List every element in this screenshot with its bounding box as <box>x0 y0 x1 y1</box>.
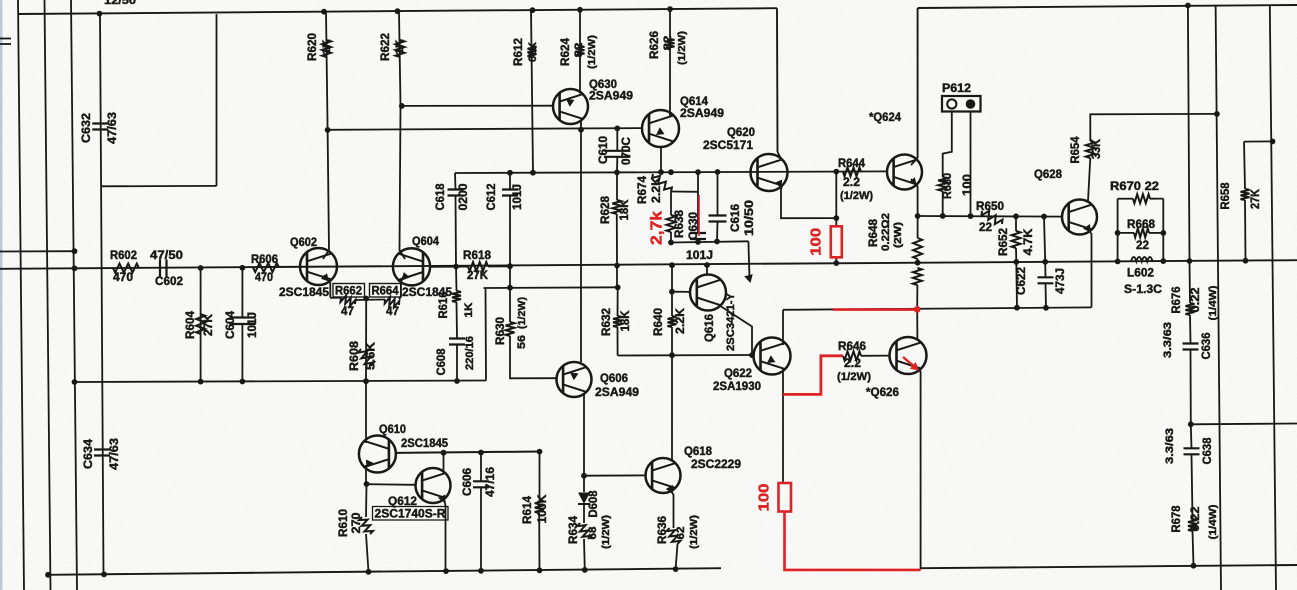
wire feedback box bottom <box>101 185 217 187</box>
wire R636 lower <box>676 544 678 569</box>
junction tail node <box>363 296 369 302</box>
wire Q604 emitter <box>401 275 404 296</box>
wire bottom rail (left) <box>48 568 721 575</box>
junction top rail right / output branch <box>1185 3 1191 9</box>
resistor R614 zigzag <box>535 500 544 513</box>
wire R676 upper <box>1189 261 1192 303</box>
red annotation line near R674/C630 <box>698 195 700 236</box>
wire C612 to jog line <box>509 266 511 288</box>
junction bottom rail <box>366 569 372 575</box>
capacitor C608 <box>449 339 465 345</box>
wire Q602 collector <box>328 130 329 250</box>
wire C608 lower <box>456 345 458 382</box>
capacitor C604 <box>229 318 255 325</box>
wire Q622 collector riser <box>782 310 784 345</box>
junction Q624 emitter / y216 line <box>915 213 921 219</box>
junction Q618 base / Q606 collector <box>581 473 587 479</box>
wire C622 branch upper <box>1044 217 1046 278</box>
wire C618 upper <box>454 173 457 189</box>
wire R626 branch / Q614 collector <box>669 9 671 116</box>
arrow Q602 emitter <box>321 273 329 281</box>
capacitor C610 <box>604 151 630 157</box>
capacitor C602 <box>160 260 167 277</box>
wire R652 lower <box>1016 248 1017 308</box>
junction y452 Q612 collector <box>441 450 447 456</box>
wire R610 upper <box>365 484 368 517</box>
junction Q614 emitter / y173 line <box>658 169 664 175</box>
red jumper wire at Q622/Q626 <box>783 356 843 395</box>
capacitor C638 <box>1184 448 1200 454</box>
junction bottom rail <box>101 571 107 577</box>
junction y424 <box>1188 421 1194 427</box>
wire R668 left <box>1118 232 1134 234</box>
capacitor C612 <box>502 190 518 196</box>
junction y173 line <box>715 169 721 175</box>
capacitor C632 <box>92 124 108 130</box>
wire R640 lower <box>671 327 673 355</box>
arrow Q622 emitter (PNP) <box>767 355 776 363</box>
wire C630 lower <box>697 239 699 242</box>
wire R678 lower <box>1193 531 1194 566</box>
wire C616 lower <box>716 222 719 242</box>
wire Q612 base <box>367 483 416 486</box>
junction negative rail y=381 <box>454 378 460 384</box>
diode D608 <box>578 493 590 505</box>
wire Q628 collector riser <box>1088 158 1090 201</box>
wire R604 branch <box>200 268 202 382</box>
wire R648 mid <box>917 259 919 263</box>
wire Q626 collector <box>916 309 918 339</box>
wire output vertical upper <box>1188 6 1190 262</box>
junction R622/Q630 base <box>399 103 405 109</box>
arrow Q612 emitter <box>438 495 446 504</box>
junction y242 C630 <box>695 239 701 245</box>
wire R680 lower <box>942 191 944 216</box>
wire Q616 emitter to tail <box>718 305 752 356</box>
junction main rail 10 <box>1013 259 1019 265</box>
transistor Q622 2SA1930 <box>754 338 791 375</box>
label R662 boxed <box>333 284 365 298</box>
wire Q618 base line <box>584 474 646 476</box>
wire R634 lower <box>583 539 586 570</box>
junction y452 C606 <box>478 450 484 456</box>
wire R616 upper <box>455 267 458 292</box>
wire y424 line to right <box>1191 423 1297 426</box>
red wire from lower red resistor to bottom <box>785 512 921 570</box>
wire Q612 emitter down <box>444 498 446 571</box>
capacitor C636 <box>1183 344 1199 350</box>
wire Q628 emitter down <box>1087 228 1092 307</box>
junction y242 C616 <box>714 239 720 245</box>
wire Q616 base <box>672 291 690 293</box>
wire y242 horizontal <box>671 241 748 242</box>
wire riser x=486 <box>485 288 488 381</box>
transistor Q624 2SC5171 (driver) <box>887 155 922 190</box>
junction main rail 8 <box>833 260 839 266</box>
resistor R638 zigzag <box>667 215 676 232</box>
wire C622 lower <box>1045 284 1048 308</box>
junction Q610 emitter / Q612 base <box>364 481 370 487</box>
wire Q604 collector <box>400 106 406 259</box>
junction Q616 base / R640 <box>669 289 675 295</box>
resistor R668 zigzag <box>1134 228 1149 237</box>
wire C638 lower <box>1192 455 1193 519</box>
junction y355 R640 <box>669 352 675 358</box>
wire R658 upper <box>1244 142 1245 189</box>
label R664 boxed <box>370 284 402 298</box>
resistor R654 zigzag <box>1086 141 1095 158</box>
wire R630 lower to Q606 base <box>510 336 557 378</box>
capacitor C616 <box>709 216 727 222</box>
wire R632 lower <box>617 327 619 356</box>
resistor R648 zigzag upper <box>913 238 922 259</box>
wire feedback box right edge <box>216 14 218 186</box>
junction main rail 7 <box>704 262 710 268</box>
wire Q612 collector <box>443 453 445 473</box>
wire R620 branch / Q602 collector riser <box>326 12 328 130</box>
resistor R644 zigzag <box>843 167 861 176</box>
wire tail right <box>399 296 401 299</box>
wire R648 upper <box>917 216 919 238</box>
wire C606 upper <box>480 453 482 482</box>
junction bottom rail <box>443 568 449 574</box>
wire P612 pin1 to R680 <box>943 112 952 178</box>
wire R648 lower <box>916 285 918 309</box>
transistor Q614 2SA949 <box>642 110 679 147</box>
red junction dot y309 <box>914 306 921 313</box>
transistor Q616 2SC3421-Y <box>690 275 726 311</box>
resistor R636 zigzag <box>667 528 681 544</box>
resistor R620 zigzag <box>322 40 331 57</box>
wire R652 upper <box>1015 216 1017 231</box>
transistor Q620 2SC5171 <box>751 154 788 191</box>
wire y216 line to Q628 <box>918 215 1062 218</box>
wire R616-C608 middle <box>456 302 459 338</box>
junction bottom rail <box>582 567 588 573</box>
junction stub rail end <box>72 248 78 254</box>
arrow Q606 emitter (PNP) <box>570 373 579 381</box>
wire Q620 collector diagonal <box>778 152 783 161</box>
resistor R662 zigzag <box>341 296 356 307</box>
junction Q602 collector / y129 line <box>325 127 331 133</box>
wire C610 lower <box>616 157 618 172</box>
wire left bus 3 <box>71 0 77 590</box>
wire R628 lower <box>616 214 618 266</box>
wire C610 upper <box>616 128 618 150</box>
arrow Q604 emitter <box>402 272 410 280</box>
resistor R626 zigzag <box>666 39 675 49</box>
wire L602 bracket right <box>1162 199 1164 262</box>
resistor R606 <box>253 263 279 272</box>
arrow Q628 emitter <box>1083 224 1091 233</box>
wire Q604 base to R618 <box>430 266 468 268</box>
wire y309 line <box>783 307 1092 309</box>
junction jog line / R630 <box>507 285 513 291</box>
wire left bus 1 <box>18 0 24 590</box>
junction y173 line <box>507 170 513 176</box>
resistor R616 zigzag <box>452 291 461 302</box>
junction R668 left <box>1115 230 1121 236</box>
wire Q614 emitter stub <box>660 146 662 172</box>
wire Q610 base line y452 <box>396 452 540 453</box>
wire top supply rail (right) <box>918 5 1297 8</box>
wire Q616 collector stub <box>706 265 708 275</box>
resistor R612 zigzag <box>528 46 537 57</box>
wire R654 to x1218 <box>1090 114 1217 141</box>
junction main rail 12 <box>1115 259 1121 265</box>
wire Q602 emitter <box>324 275 330 298</box>
resistor R634 zigzag <box>577 523 591 539</box>
arrow Q620 emitter <box>775 180 783 189</box>
junction Q630 emitter <box>578 127 584 133</box>
junction y242 R638 <box>668 240 674 246</box>
junction y173 line <box>668 169 674 175</box>
wire R622 branch <box>399 12 401 106</box>
junction y216 R652 <box>1013 213 1019 219</box>
wire Q624 collector diagonal <box>911 158 918 165</box>
resistor R618 zigzag <box>468 262 488 271</box>
capacitor C630 <box>690 233 706 239</box>
wire C616 upper <box>717 172 719 215</box>
junction main rail 9 <box>915 260 921 266</box>
resistor R648 zigzag lower <box>913 268 922 285</box>
wire C604 branch upper <box>241 268 243 318</box>
junction main rail 1 <box>198 265 204 271</box>
resistor R630 zigzag <box>506 322 515 336</box>
wire jog R674 to C630 <box>671 191 698 193</box>
wire R632 mid <box>617 287 619 316</box>
junction R654 / x1218 <box>1214 111 1220 117</box>
wire R638 upper <box>670 192 672 216</box>
transistor Q628 <box>1062 200 1097 235</box>
wire left edge stub 1 <box>0 38 11 40</box>
junction main rail 6 <box>669 262 675 268</box>
capacitor C618 <box>448 190 464 196</box>
wire C638 upper <box>1190 424 1193 448</box>
resistor R632 zigzag <box>613 316 622 327</box>
wire R640 upper <box>671 265 673 292</box>
red emitter arrow in Q626 <box>903 357 917 369</box>
junction top rail <box>395 8 401 14</box>
wire P612 pin2 down <box>970 112 972 217</box>
wire R640 mid <box>671 292 673 316</box>
arrow Q624 emitter <box>909 177 917 185</box>
wire D608 upper <box>583 476 585 492</box>
junction main rail 0 <box>72 265 78 271</box>
wire R668 right <box>1149 232 1163 234</box>
resistor R674 zigzag <box>652 174 672 192</box>
resistor R658 zigzag <box>1241 189 1250 200</box>
wire R610 lower <box>366 534 369 572</box>
resistor R650 zigzag <box>982 211 1003 224</box>
junction y216 C622 branch <box>1041 214 1047 220</box>
wire top supply rail (left) <box>18 8 777 14</box>
wire left edge stub 2 <box>0 43 11 45</box>
wire tail left <box>330 297 341 299</box>
junction main rail 5 <box>614 263 620 269</box>
resistor R680 zigzag <box>938 177 947 191</box>
wire Q610 collector from rail <box>365 381 367 443</box>
wire L602 bracket left <box>1117 199 1119 262</box>
resistor R646 zigzag <box>843 351 861 360</box>
wire Q622 emitter down (black) <box>782 369 784 484</box>
wire C604 branch lower <box>241 325 243 382</box>
wire R670 right <box>1150 198 1163 200</box>
junction y308 C622 <box>1043 305 1049 311</box>
transistor Q626 (output, red-marked) <box>890 337 927 374</box>
junction negative rail y=381 <box>198 379 204 385</box>
wire C630 upper <box>697 172 699 233</box>
wire C618 lower <box>455 196 458 267</box>
junction main rail 2 <box>240 265 246 271</box>
wire R638 lower <box>670 232 672 243</box>
junction y216 R680 <box>940 213 946 219</box>
wire R632 upper <box>616 266 618 288</box>
junction negative rail y=381 <box>72 379 78 385</box>
junction y173 line <box>695 169 701 175</box>
transistor Q602 2SC1845 <box>300 248 337 285</box>
wire C636 lower <box>1190 350 1192 424</box>
wire Q626 emitter down <box>912 364 921 570</box>
arrow Q616 emitter terminal <box>744 274 753 283</box>
wire R676-C636 <box>1189 315 1192 343</box>
junction top rail <box>667 6 673 12</box>
capacitor C606 <box>473 481 489 487</box>
junction main rail 11 <box>1042 259 1048 265</box>
junction bottom rail <box>45 572 51 578</box>
wire R614 upper <box>539 452 541 500</box>
capacitor C622 <box>1038 277 1054 283</box>
wire bottom rail (right) <box>921 565 1297 568</box>
scan edge band <box>0 0 3 590</box>
wire main horizontal rail <box>0 260 1297 269</box>
junction bottom rail <box>673 566 679 572</box>
arrow Q614 emitter (PNP) <box>656 127 665 135</box>
wire left bus 2 <box>45 0 51 590</box>
junction y355 Q616 emitter <box>749 352 755 358</box>
wire red resistor to rail <box>835 257 837 263</box>
wire C632/C634 branch vertical <box>100 14 104 575</box>
wire Q606 collector down <box>583 394 585 476</box>
wire C612 upper <box>509 173 511 189</box>
wire Q630 base line <box>402 105 553 107</box>
wire R658 lower <box>1244 200 1247 261</box>
inductor L602 <box>1131 257 1153 262</box>
wire Q620 collector riser <box>776 8 779 152</box>
junction top rail <box>321 9 327 15</box>
resistor R678 zigzag <box>1188 519 1197 531</box>
wire R618 right <box>488 265 510 267</box>
wire C606 lower <box>480 488 482 571</box>
red overlay wire on y309 line <box>833 308 917 311</box>
wire Q602 collector to Q614 base <box>328 128 642 130</box>
wire tail middle <box>355 299 385 302</box>
junction negative rail y=381 <box>240 379 246 385</box>
wire Q602 collector diagonal <box>323 250 329 259</box>
transistor Q612 2SC1740S-R <box>416 468 451 503</box>
junction top rail / C632 branch <box>97 11 103 17</box>
transistor Q630 2SA949 <box>553 89 588 124</box>
junction bottom rail <box>478 568 484 574</box>
resistor R608 zigzag <box>358 349 374 366</box>
transistor Q610 2SC1845 <box>359 436 396 473</box>
junction x617 top <box>614 125 620 131</box>
wire negative rail segment y=381 <box>75 381 487 383</box>
resistor R670 zigzag <box>1133 194 1150 203</box>
wire R614 lower <box>538 513 540 570</box>
transistor Q606 2SA949 <box>557 362 592 397</box>
wire R630 upper <box>509 288 511 322</box>
arrow Q630 emitter (PNP) <box>566 99 575 107</box>
wire Q630 emitter to Q606 <box>580 120 582 362</box>
wire Q624 collector riser <box>917 8 919 158</box>
junction negative rail y=381 <box>363 378 369 384</box>
junction R658 / x1272 <box>1270 139 1276 145</box>
resistor R664 zigzag <box>385 297 400 307</box>
junction y308 R652 <box>1014 305 1020 311</box>
resistor R624 zigzag <box>576 46 585 56</box>
wire y173 horizontal line <box>455 171 888 173</box>
resistor R622 zigzag <box>396 40 405 57</box>
wire Q624 emitter <box>911 179 918 216</box>
transistor Q618 2SC2229 <box>646 458 681 493</box>
junction main rail 3 <box>453 264 459 270</box>
wire Q620 emitter <box>781 185 836 218</box>
wire y355 line to Q622 base <box>618 354 754 357</box>
junction y173 line <box>614 170 620 176</box>
transistor Q604 2SC1845 <box>393 248 430 285</box>
wire Q618 collector from y355 <box>671 355 673 460</box>
wire upper-left stub rail <box>0 250 75 252</box>
label Q612 part boxed 2SC1740S-R <box>373 507 449 521</box>
junction Q620 emitter / R644 branch <box>833 215 839 221</box>
junction top rail <box>530 7 536 13</box>
junction main rail 15 <box>1243 258 1249 264</box>
wire R658 top link <box>1244 140 1273 142</box>
wire down to Q616 emitter arrow <box>748 241 749 278</box>
wire tail to R608 <box>365 299 367 382</box>
wire vertical x1272 <box>1270 5 1276 590</box>
arrow Q618 emitter <box>666 485 673 494</box>
wire R624 branch / Q630 collector <box>579 10 581 94</box>
junction bottom rail <box>537 567 543 573</box>
junction main rail 4 <box>507 263 513 269</box>
wire vertical x1218 <box>1216 5 1221 590</box>
wire x836 to red resistor <box>835 218 837 226</box>
red resistor 100 (upper, replacing R648 area) <box>831 226 842 257</box>
wire R670 left <box>1118 198 1133 200</box>
wire Q618 emitter <box>670 489 674 528</box>
connector P612 <box>942 96 981 112</box>
junction main rail 13 <box>1160 258 1166 264</box>
resistor R652 zigzag <box>1012 231 1021 248</box>
arrow Q610 emitter <box>366 460 374 469</box>
resistor R604 zigzag <box>196 314 205 334</box>
resistor R676 zigzag <box>1186 303 1195 315</box>
wire Q610 emitter down <box>365 465 367 484</box>
junction y173 line <box>833 169 839 175</box>
junction top rail <box>577 7 583 13</box>
junction y452 R614 <box>537 449 543 455</box>
junction bottom rail right <box>1191 563 1197 569</box>
junction main rail 14 <box>1187 258 1193 264</box>
wire R646 to Q626 base <box>861 355 890 357</box>
wire jog y=287.5 <box>484 286 619 289</box>
wire C612 lower <box>509 196 511 266</box>
wire R612 branch <box>531 10 533 172</box>
junction y216 P612 pin2 <box>968 213 974 219</box>
capacitor C634 <box>94 450 110 456</box>
